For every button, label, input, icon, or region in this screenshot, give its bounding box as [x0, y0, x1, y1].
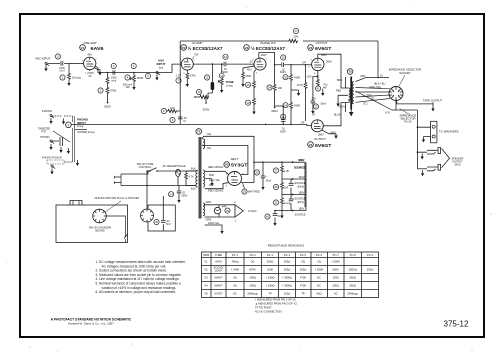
svg-text:90Ω: 90Ω [316, 292, 321, 296]
tube V4 6V6GT output [308, 120, 336, 148]
svg-text:250Ω: 250Ω [300, 268, 307, 272]
svg-text:28: 28 [274, 185, 278, 189]
resistor R3 470K plate load [98, 72, 117, 109]
svg-text:NC: NC [371, 98, 375, 101]
svg-text:½ ECC83/12AX7: ½ ECC83/12AX7 [251, 46, 286, 51]
svg-text:20V: 20V [307, 76, 312, 79]
svg-text:31: 31 [274, 201, 278, 205]
svg-text:12: 12 [56, 55, 60, 59]
svg-text:600V: 600V [280, 131, 286, 134]
svg-text:26: 26 [255, 171, 259, 175]
svg-text:BOARD: BOARD [95, 229, 104, 233]
svg-text:6AV6: 6AV6 [91, 46, 105, 51]
volume control R4 500K [123, 63, 144, 90]
svg-text:19: 19 [282, 56, 286, 60]
plate decoupling capacitor and resistor to 300V [194, 63, 214, 111]
svg-text:340V: 340V [298, 175, 304, 179]
svg-text:V2: V2 [182, 46, 186, 50]
svg-text:PHONO: PHONO [40, 136, 49, 139]
svg-text:870K: 870K [250, 268, 256, 272]
filter capacitor 30mf input [254, 161, 271, 190]
svg-text:6AV6: 6AV6 [215, 260, 222, 264]
svg-text:V5: V5 [204, 292, 208, 296]
svg-text:NC: NC [317, 284, 321, 288]
svg-text:470K: 470K [245, 74, 251, 78]
pilot lamp #44 [205, 200, 235, 222]
svg-text:600V: 600V [280, 71, 286, 74]
svg-text:MIC INPUT: MIC INPUT [35, 57, 51, 61]
power transformer T1 [196, 129, 205, 219]
line capacitor to ground [169, 186, 188, 204]
svg-text:PHASE INV: PHASE INV [260, 41, 276, 45]
svg-text:13: 13 [197, 90, 201, 94]
svg-text:BLK: BLK [191, 167, 196, 171]
svg-text:5Y3GT: 5Y3GT [214, 292, 223, 296]
svg-text:470K: 470K [110, 89, 117, 93]
svg-text:▲ MEASURED FROM PIN 3 OF V2: ▲ MEASURED FROM PIN 3 OF V2 [255, 302, 297, 306]
svg-text:20: 20 [284, 75, 288, 79]
impedance selector socket [389, 68, 421, 101]
coupling capacitor to V3 grid [275, 55, 312, 74]
svg-text:18: 18 [246, 101, 250, 105]
coupling capacitor to V4 grid [265, 105, 311, 133]
svg-text:† 3900Ω: † 3900Ω [282, 284, 292, 288]
svg-text:POT: POT [41, 130, 47, 133]
secondary wires to selector socket [356, 75, 397, 111]
svg-text:Pin 2: Pin 2 [250, 253, 257, 257]
svg-text:GRN: GRN [206, 200, 212, 204]
phono motor plug [93, 196, 140, 242]
svg-text:Pin 3: Pin 3 [267, 253, 274, 257]
selector switch phono [38, 128, 70, 155]
resistor 20K feedback [288, 28, 299, 42]
svg-text:2700: 2700 [190, 74, 196, 78]
svg-text:430K: 430K [294, 76, 300, 80]
svg-text:650K: 650K [333, 268, 339, 272]
svg-text:250Ω: 250Ω [349, 276, 356, 280]
speaker terminal strip [417, 121, 459, 143]
svg-text:16: 16 [246, 83, 250, 87]
svg-text:TP: TP [301, 292, 305, 296]
svg-text:20Meg▲: 20Meg▲ [247, 292, 258, 296]
svg-text:600V: 600V [182, 193, 188, 197]
svg-text:6V6GT: 6V6GT [214, 276, 223, 280]
svg-text:JACK: JACK [454, 164, 461, 167]
svg-text:2Meg: 2Meg [232, 260, 239, 264]
svg-text:YEL: YEL [207, 132, 212, 136]
footer text [51, 318, 132, 326]
tape output jack [397, 99, 443, 112]
plate load resistors 430K pair [283, 64, 301, 125]
svg-text:2500: 2500 [333, 276, 339, 280]
svg-text:V4: V4 [309, 143, 313, 147]
svg-text:300V: 300V [104, 105, 111, 109]
svg-text:V3: V3 [309, 46, 313, 50]
svg-text:X: X [234, 201, 236, 205]
on-off switch on tone control [137, 162, 196, 172]
ground [44, 65, 47, 71]
svg-text:AC RECEPTACLE: AC RECEPTACLE [162, 164, 185, 168]
filter resistor 1.2K [273, 161, 289, 179]
svg-text:-2V: -2V [249, 61, 253, 64]
wire AC to phono socket [146, 171, 148, 209]
phono pickup [42, 156, 64, 175]
svg-text:mmf: mmf [59, 69, 64, 73]
filter capacitors chained [289, 179, 295, 211]
svg-text:20V: 20V [312, 98, 317, 101]
svg-text:1.2K: 1.2K [284, 170, 289, 173]
resistance readings table [202, 244, 379, 314]
svg-text:V2: V2 [204, 268, 208, 272]
svg-text:45V: 45V [247, 69, 252, 72]
tube V1 6AV6 pre amp [80, 41, 104, 75]
svg-text:V2: V2 [245, 46, 249, 50]
svg-text:1meg: 1meg [284, 202, 291, 205]
svg-text:6V6GT: 6V6GT [214, 284, 223, 288]
AC receptacle [162, 164, 196, 191]
speaker plug arrow [442, 149, 464, 168]
svg-text:500K: 500K [137, 76, 144, 80]
speaker output jack upper [417, 110, 441, 169]
svg-text:BRN: BRN [337, 79, 342, 82]
svg-text:0Ω: 0Ω [251, 260, 255, 264]
tone control 1meg [218, 63, 234, 93]
svg-text:250Ω: 250Ω [367, 268, 374, 272]
wire V4 plate to transformer [323, 103, 345, 126]
svg-text:33: 33 [314, 105, 318, 109]
tube V2 ECC83/12AX7 AF amp [180, 41, 223, 75]
svg-text:Pin 6: Pin 6 [316, 253, 323, 257]
svg-text:50mf: 50mf [321, 103, 327, 106]
phono socket and capacitor [141, 196, 176, 231]
svg-text:OP: OP [301, 121, 305, 125]
svg-text:V3: V3 [204, 276, 208, 280]
heater tap GRN-YEL [205, 221, 224, 234]
svg-text:(YEL): (YEL) [366, 94, 372, 97]
svg-text:† 180Ω: † 180Ω [266, 284, 275, 288]
cathode resistors phase inv [245, 70, 256, 115]
svg-text:RESISTANCE READINGS: RESISTANCE READINGS [268, 244, 305, 248]
B+ source rail and taps [282, 158, 306, 217]
output capacitor 5mf [265, 210, 284, 226]
svg-text:RED: RED [336, 90, 341, 93]
svg-text:30mf: 30mf [266, 180, 272, 183]
svg-text:470K: 470K [300, 284, 306, 288]
svg-text:360V: 360V [271, 109, 278, 113]
svg-text:AF AMP: AF AMP [191, 41, 203, 45]
svg-text:PHONO MOTOR PLUG & SOCKET: PHONO MOTOR PLUG & SOCKET [95, 196, 140, 200]
svg-text:100Ω: 100Ω [284, 292, 291, 296]
svg-text:T2: T2 [348, 70, 352, 74]
tube V2 phase inverter [244, 41, 286, 75]
svg-text:RED-230VAC: RED-230VAC [208, 189, 224, 193]
filter resistor 20K [273, 179, 288, 195]
svg-text:SOURCE: SOURCE [294, 197, 305, 201]
record changer board [56, 201, 128, 243]
svg-text:14: 14 [220, 74, 223, 78]
svg-text:12AX7: 12AX7 [214, 268, 223, 272]
svg-text:TAPE OUTPUT: TAPE OUTPUT [423, 99, 443, 103]
svg-text:PHONO: PHONO [42, 109, 53, 113]
svg-text:4W: 4W [323, 87, 327, 90]
svg-text:1meg: 1meg [77, 125, 84, 128]
svg-text:† 240K: † 240K [231, 268, 240, 272]
HV secondary wires to rectifier [205, 165, 229, 193]
svg-text:41: 41 [317, 87, 321, 91]
svg-text:100K: 100K [267, 268, 273, 272]
cathode resistor V1 [87, 68, 101, 79]
svg-text:PLUG: PLUG [404, 120, 412, 124]
svg-text:0Ω: 0Ω [317, 260, 321, 264]
wire V3 plate to transformer [318, 54, 346, 88]
feedback rail wire [180, 41, 378, 105]
svg-text:WHT-RED: WHT-RED [248, 190, 260, 194]
svg-text:6V6GT: 6V6GT [315, 143, 332, 148]
AC plug [115, 171, 197, 186]
svg-text:† 3900Ω: † 3900Ω [282, 276, 292, 280]
svg-text:4.7K: 4.7K [189, 176, 194, 179]
svg-text:5M6: 5M6 [209, 173, 215, 177]
svg-text:Pin 5: Pin 5 [300, 253, 307, 257]
svg-text:GRN-YEL: GRN-YEL [208, 221, 220, 225]
svg-text:290Ω: 290Ω [249, 276, 256, 280]
svg-text:29: 29 [226, 209, 230, 213]
filament winding YEL to rectifier [202, 132, 254, 182]
notes list [96, 260, 187, 294]
svg-text:470K: 470K [297, 84, 303, 87]
svg-text:20Meg▲: 20Meg▲ [347, 292, 358, 296]
svg-text:(20mf): (20mf) [297, 201, 304, 204]
svg-text:290Ω: 290Ω [267, 260, 274, 264]
svg-text:BLK: BLK [191, 187, 196, 191]
svg-text:34: 34 [268, 86, 272, 90]
svg-text:290Ω: 290Ω [284, 260, 291, 264]
B+ rail 360V [242, 158, 305, 207]
svg-text:TP TIE POINT: TP TIE POINT [255, 306, 272, 310]
svg-text:RED-230VAC: RED-230VAC [208, 165, 224, 169]
svg-text:10meg: 10meg [72, 76, 81, 80]
svg-text:V4: V4 [204, 284, 208, 288]
svg-text:76V: 76V [194, 54, 199, 57]
capacitor C1 .005mf [48, 61, 70, 73]
svg-text:30: 30 [155, 220, 159, 224]
wire grid to V1 [69, 62, 84, 64]
svg-text:365V: 365V [326, 61, 332, 64]
phono jack [42, 109, 73, 125]
svg-text:290Ω: 290Ω [284, 268, 291, 272]
svg-text:† MEASURED FROM PIN 2 OF V5: † MEASURED FROM PIN 2 OF V5 [255, 298, 296, 302]
svg-text:46V: 46V [87, 54, 92, 57]
svg-text:ITEM: ITEM [203, 253, 210, 257]
cathode resistor V2a [176, 70, 196, 87]
svg-text:Pin 9: Pin 9 [367, 253, 374, 257]
svg-text:CONTROL: CONTROL [139, 165, 152, 169]
svg-text:25: 25 [243, 190, 247, 194]
svg-text:470K: 470K [300, 276, 306, 280]
svg-text:Pin 1: Pin 1 [232, 253, 239, 257]
svg-text:430K: 430K [294, 104, 300, 108]
svg-text:4.7K: 4.7K [385, 111, 391, 115]
svg-text:360V: 360V [298, 158, 304, 162]
svg-text:OUTPUT: OUTPUT [314, 137, 326, 141]
svg-text:T1: T1 [197, 130, 201, 134]
aux input jack J2 [145, 59, 165, 81]
svg-text:TP: TP [268, 292, 272, 296]
svg-text:† 500K: † 500K [315, 268, 324, 272]
svg-text:280V: 280V [298, 191, 304, 195]
svg-text:5Y3GT: 5Y3GT [231, 163, 248, 168]
svg-text:470: 470 [170, 106, 175, 110]
svg-text:10: 10 [224, 55, 228, 59]
svg-text:† 190Ω: † 190Ω [266, 276, 275, 280]
feedback resistor and capacitor cluster [161, 105, 187, 124]
svg-text:(30mf): (30mf) [297, 186, 304, 189]
output transformer T2 [334, 69, 354, 117]
svg-text:6. All controls at minimum,: 6. All controls at minimum, proper outpu… [96, 290, 177, 294]
svg-text:20K: 20K [294, 35, 299, 39]
svg-text:12K: 12K [125, 86, 130, 89]
svg-text:V1: V1 [81, 46, 85, 50]
svg-text:NC: NC [317, 276, 321, 280]
svg-text:PRE AMP: PRE AMP [84, 41, 97, 45]
svg-text:YEL: YEL [207, 146, 212, 150]
grid resistor 470K phase inv [241, 64, 254, 87]
svg-text:Pin 7: Pin 7 [333, 253, 340, 257]
svg-text:GRN: GRN [360, 75, 366, 78]
svg-text:2500Ω: 2500Ω [349, 268, 357, 272]
svg-text:Pin 8: Pin 8 [350, 253, 357, 257]
svg-text:24: 24 [284, 103, 288, 107]
impedance selector plug [377, 41, 417, 124]
capacitor C2 .005 coupling [111, 63, 117, 82]
svg-text:250Ω: 250Ω [349, 284, 356, 288]
svg-text:27: 27 [274, 169, 278, 173]
svg-text:9Ω: 9Ω [301, 260, 305, 264]
svg-text:300V: 300V [202, 108, 209, 112]
long bus wire [71, 123, 307, 125]
coupling capacitor .02 to phase inv [193, 54, 254, 74]
svg-text:Pin 4: Pin 4 [284, 253, 291, 257]
mic input jack J1 [35, 54, 60, 66]
svg-text:PHONO PICKUP: PHONO PICKUP [42, 156, 62, 160]
svg-text:375-12: 375-12 [444, 320, 469, 329]
svg-text:(TL): (TL) [363, 103, 368, 106]
svg-text:TONE: TONE [226, 80, 234, 84]
grid resistor V3/V4 470K [297, 64, 307, 121]
tapped volume control 2meg [64, 116, 95, 166]
wire V1 plate [95, 64, 181, 72]
svg-text:mf: mf [183, 120, 186, 123]
svg-text:NC: NC [334, 292, 338, 296]
svg-text:TUBE: TUBE [215, 253, 222, 257]
tube V3 6V6GT output [308, 41, 332, 75]
svg-text:SOCKET: SOCKET [399, 71, 411, 75]
svg-text:NC: NC [233, 292, 237, 296]
svg-text:mmf: mmf [111, 78, 116, 82]
svg-text:GRN: GRN [206, 218, 212, 222]
speaker output jack lower [417, 164, 440, 176]
svg-text:11: 11 [206, 76, 209, 80]
svg-text:(on): (on) [159, 66, 164, 69]
resistor R1 10meg [60, 63, 81, 86]
svg-text:180V: 180V [298, 207, 304, 211]
svg-text:NC NO CONNECTION: NC NO CONNECTION [255, 310, 282, 314]
svg-text:250Ω: 250Ω [332, 284, 339, 288]
svg-text:6V6GT: 6V6GT [315, 46, 332, 51]
filter resistor 1meg [273, 195, 290, 211]
svg-text:SOURCE: SOURCE [294, 213, 305, 217]
svg-text:TAPPED 2meg: TAPPED 2meg [77, 130, 95, 134]
svg-text:290Ω: 290Ω [249, 284, 256, 288]
svg-text:SOURCE: SOURCE [294, 181, 305, 185]
svg-text:10K: 10K [278, 86, 283, 90]
svg-text:6.3VAC: 6.3VAC [248, 209, 257, 213]
wire screens B+ [322, 130, 337, 136]
svg-text:BLUE: BLUE [334, 114, 341, 117]
svg-text:50V: 50V [166, 222, 171, 226]
svg-text:OP: OP [302, 61, 306, 65]
svg-text:TO SPEAKERS: TO SPEAKERS [439, 129, 459, 133]
svg-text:260V: 260V [261, 54, 267, 57]
svg-text:V1: V1 [204, 260, 208, 264]
svg-text:24: 24 [170, 192, 174, 196]
svg-text:1meg: 1meg [226, 84, 233, 88]
svg-text:OUTPUT: OUTPUT [316, 41, 328, 45]
svg-text:0Ω: 0Ω [233, 284, 237, 288]
svg-text:† 500K: † 500K [331, 260, 340, 264]
svg-text:RECT: RECT [231, 157, 239, 161]
svg-text:Howard W. Sams & Co., Inc. 195: Howard W. Sams & Co., Inc. 1957 [68, 322, 114, 326]
svg-text:0Ω: 0Ω [233, 276, 237, 280]
plate wire and 10K to 360V stub [259, 53, 283, 114]
svg-text:17: 17 [294, 29, 298, 33]
svg-text:SOURCE: SOURCE [294, 166, 305, 170]
heater arrow 6.3VAC [234, 201, 257, 223]
svg-text:V5: V5 [225, 163, 229, 167]
rectifier V5 5Y3GT [224, 157, 248, 188]
svg-text:½ ECC83/12AX7: ½ ECC83/12AX7 [188, 46, 224, 51]
cathode network V3/V4 [307, 71, 328, 117]
svg-text:340V: 340V [339, 106, 345, 109]
svg-text:20K: 20K [284, 187, 289, 190]
svg-text:42: 42 [266, 215, 270, 219]
svg-text:(GRN-YEL): (GRN-YEL) [369, 86, 381, 89]
